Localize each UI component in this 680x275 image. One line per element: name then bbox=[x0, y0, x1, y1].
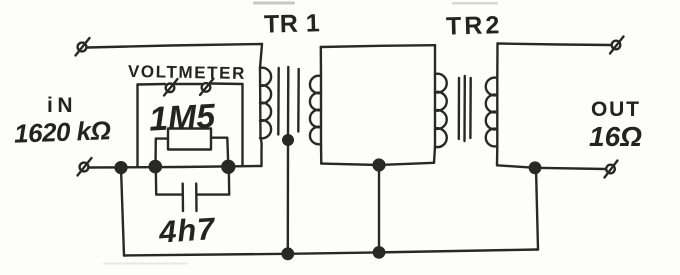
resistor R1 right lead bbox=[211, 138, 228, 167]
capacitor C1 left lead bbox=[156, 167, 182, 195]
svg-text:4h7: 4h7 bbox=[157, 211, 217, 250]
transformer TR2 secondary winding bbox=[486, 44, 498, 166]
junction dot rail under interstage bbox=[374, 247, 384, 257]
voltmeter bracket top line bbox=[138, 84, 243, 85]
wire top-left from IN top terminal to TR1 primary bbox=[88, 44, 263, 48]
svg-text:VOLTMETER: VOLTMETER bbox=[128, 62, 246, 83]
voltmeter terminal right bbox=[200, 79, 214, 96]
terminal OUT bottom bbox=[605, 161, 618, 178]
svg-text:16Ω: 16Ω bbox=[589, 121, 642, 152]
wire node D to OUT bottom terminal bbox=[535, 168, 606, 169]
transformer TR1 primary winding bbox=[260, 44, 271, 138]
terminal IN bottom bbox=[78, 158, 92, 176]
wire node A down to ground rail bbox=[121, 168, 124, 256]
wire interstage tap to ground rail bbox=[378, 165, 380, 252]
capacitor C1 left plate bbox=[181, 184, 184, 211]
svg-text:TR2: TR2 bbox=[446, 11, 503, 40]
wire TR2 secondary bottom bbox=[497, 165, 535, 168]
transformer TR1 secondary winding bbox=[310, 47, 321, 164]
junction dot node B bbox=[150, 161, 161, 172]
scan smudge above TR2 bbox=[452, 2, 498, 5]
transformer TR2 core line 2 bbox=[463, 76, 466, 141]
junction dot interstage center tap bbox=[374, 160, 385, 171]
wire TR1 screen to ground rail bbox=[287, 140, 290, 254]
junction dot TR1 screen bbox=[283, 135, 293, 145]
terminal IN top bbox=[76, 38, 90, 56]
scan smudge bottom left bbox=[103, 263, 188, 265]
svg-text:1M5: 1M5 bbox=[148, 97, 217, 138]
svg-text:iN: iN bbox=[47, 94, 77, 117]
ground rail bottom bbox=[124, 250, 538, 256]
junction dot node C bbox=[222, 161, 234, 173]
capacitor C1 right lead bbox=[198, 167, 230, 195]
scan smudge above TR1 bbox=[253, 2, 295, 5]
wire bottom-left main horizontal bbox=[90, 166, 262, 168]
voltmeter bracket right vertical bbox=[241, 84, 243, 166]
transformer TR2 primary winding bbox=[434, 45, 447, 163]
terminal OUT top bbox=[610, 37, 624, 54]
wire interstage top bbox=[321, 45, 435, 47]
wire TR1 primary bottom lead bbox=[261, 138, 262, 166]
transformer TR2 core line 1 bbox=[458, 78, 461, 139]
junction dot node D bbox=[530, 163, 540, 173]
voltmeter terminal left bbox=[164, 79, 178, 96]
transformer TR1 core line 1 bbox=[277, 68, 280, 135]
wire rail right riser bbox=[536, 168, 538, 250]
wire TR2 secondary top to OUT terminal bbox=[498, 44, 611, 46]
resistor R1 1M5 body bbox=[168, 129, 211, 150]
transformer TR1 core line 2 with screen wire bbox=[287, 67, 290, 140]
transformer TR1 core line 3 bbox=[297, 69, 300, 132]
junction dot rail under TR1 core bbox=[283, 249, 293, 259]
wire interstage bottom bbox=[321, 163, 434, 165]
resistor R1 left lead bbox=[156, 139, 169, 167]
svg-text:OUT: OUT bbox=[591, 98, 641, 121]
junction dot node A bbox=[116, 162, 127, 173]
voltmeter bracket left vertical bbox=[136, 85, 138, 168]
transformer TR2 core line 3 bbox=[469, 78, 472, 138]
capacitor C1 right plate bbox=[195, 184, 198, 211]
svg-text:TR 1: TR 1 bbox=[264, 9, 321, 38]
svg-text:1620 kΩ: 1620 kΩ bbox=[14, 115, 112, 148]
